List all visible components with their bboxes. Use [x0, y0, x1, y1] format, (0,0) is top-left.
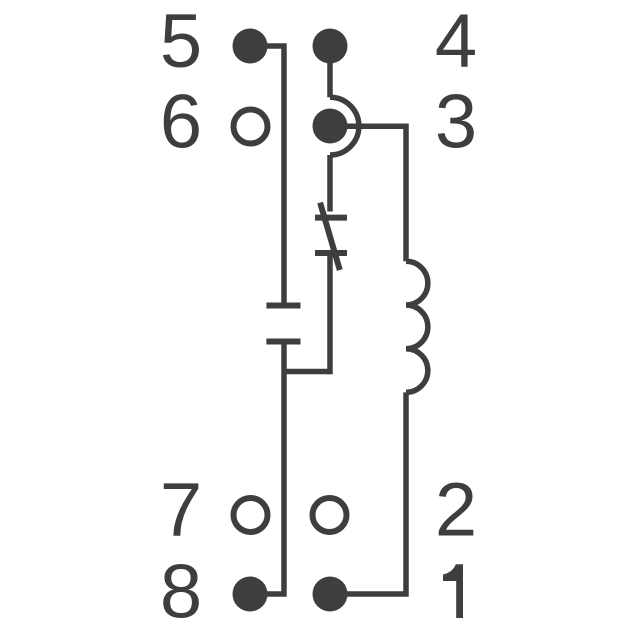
wire lower contact to pin 8	[250, 344, 284, 594]
svg-text:6: 6	[160, 80, 202, 165]
wire switch to junction	[327, 256, 333, 374]
crossover hop arc around pin 3	[330, 97, 359, 155]
wire crossover to switch	[327, 155, 333, 212]
switch upper fixed bar	[315, 215, 347, 221]
svg-text:5: 5	[160, 0, 202, 84]
pin 5 pad (filled)	[233, 29, 268, 64]
pin 4 pad (filled)	[313, 29, 348, 64]
pin 1 pad (filled)	[313, 577, 348, 612]
svg-text:4: 4	[435, 0, 477, 84]
svg-text:7: 7	[160, 468, 202, 553]
pin 3 pad (filled)	[313, 109, 348, 144]
pin 3 label	[435, 80, 477, 165]
wire coil bottom to pin 1	[330, 392, 406, 594]
wire junction to switch arm	[284, 369, 330, 375]
pin 8 label	[160, 550, 202, 635]
switch lower fixed bar	[315, 250, 347, 256]
upper fixed contact bar (pole A)	[266, 303, 300, 309]
pin 7 label	[160, 468, 202, 553]
pin 2 label	[435, 468, 477, 553]
pin 6 pad (open)	[234, 110, 268, 144]
pin 1 label	[443, 564, 463, 618]
pin 8 pad (filled)	[233, 577, 268, 612]
svg-text:2: 2	[435, 468, 477, 553]
wire pin 3 to coil top	[330, 126, 406, 261]
svg-text:8: 8	[160, 550, 202, 635]
pin 7 pad (open)	[234, 498, 268, 532]
switch movable arm (slanted)	[320, 203, 340, 270]
wire pin 5 to upper fixed contact	[250, 46, 284, 303]
pin 6 label	[160, 80, 202, 165]
pin 4 label	[435, 0, 477, 84]
pin 2 pad (open)	[313, 498, 347, 532]
lower fixed contact bar (pole A)	[266, 339, 300, 345]
wire pin 4 down to crossover	[327, 46, 333, 97]
svg-text:3: 3	[435, 80, 477, 165]
pin 5 label	[160, 0, 202, 84]
coil (inductor, 3 turns)	[406, 261, 428, 392]
